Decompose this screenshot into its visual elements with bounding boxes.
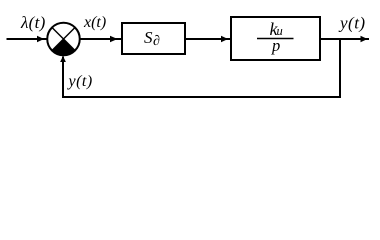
summing junction X diagonal 1 — [52, 28, 75, 51]
wire block S to block ku/p — [186, 38, 231, 40]
summing junction filled bottom quadrant — [52, 39, 75, 55]
summing junction circle — [47, 23, 80, 56]
svg-text:x(t): x(t) — [83, 14, 106, 31]
svg-text:λ(t): λ(t) — [20, 13, 46, 32]
arrowhead into block ku/p — [221, 36, 228, 42]
arrowhead into summing junction — [37, 36, 44, 42]
svg-text:p: p — [271, 36, 280, 55]
wire input — [7, 38, 48, 40]
arrowhead output — [361, 36, 368, 42]
svg-text:y(t): y(t) — [67, 73, 93, 90]
wire feedback vertical up to summing junction — [62, 57, 64, 99]
block S rectangle — [122, 23, 185, 54]
svg-text:S: S — [144, 28, 153, 47]
arrowhead feedback into summing junction bottom — [60, 56, 66, 62]
wire feedback bottom horizontal — [62, 96, 341, 98]
wire output — [321, 38, 369, 40]
svg-text:y(t): y(t) — [338, 14, 366, 33]
wire feedback branch vertical down — [339, 38, 341, 98]
arrowhead into block S — [110, 36, 118, 42]
wire summing junction to block S — [80, 38, 122, 40]
block ku/p rectangle — [231, 17, 320, 60]
fraction bar — [257, 38, 294, 40]
svg-text:∂: ∂ — [153, 34, 160, 49]
summing junction X diagonal 2 — [52, 28, 75, 51]
